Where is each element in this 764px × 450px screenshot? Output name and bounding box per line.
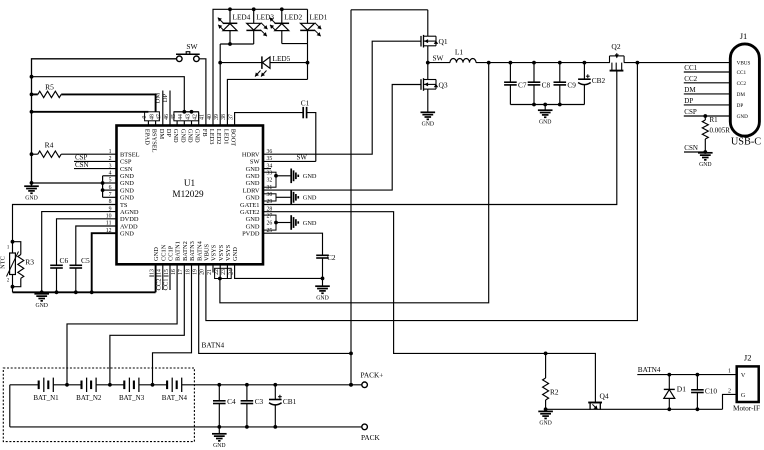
svg-text:CC1P: CC1P [168,245,175,261]
svg-text:VBUS: VBUS [737,61,751,67]
svg-text:BATN4: BATN4 [638,365,661,374]
svg-text:Q4: Q4 [600,392,609,401]
svg-text:BAT_N3: BAT_N3 [119,394,145,402]
svg-text:GND: GND [246,166,260,173]
svg-text:2: 2 [728,389,731,395]
svg-text:V: V [741,372,746,379]
svg-text:40: 40 [207,114,213,120]
svg-text:PACK: PACK [361,433,381,442]
svg-text:VBUS: VBUS [203,244,210,261]
svg-text:C3: C3 [255,397,264,406]
svg-text:LED4: LED4 [233,13,251,22]
svg-text:CSP: CSP [120,159,132,166]
svg-text:DM: DM [158,129,165,140]
svg-text:GND: GND [246,195,260,202]
svg-text:GND: GND [179,129,186,143]
svg-text:C4: C4 [227,397,236,406]
svg-text:BSYSEL: BSYSEL [151,129,158,153]
svg-text:Q2: Q2 [611,42,620,51]
svg-text:GATE2: GATE2 [240,209,260,216]
svg-text:BATN4: BATN4 [202,341,225,350]
svg-text:21: 21 [207,269,213,275]
svg-text:GND: GND [303,220,317,227]
svg-text:GND: GND [120,195,134,202]
svg-text:PACK+: PACK+ [361,371,384,380]
svg-text:Q1: Q1 [439,37,448,46]
svg-text:C10: C10 [705,387,718,396]
svg-text:BTSEL: BTSEL [120,152,140,159]
svg-text:C5: C5 [81,256,90,265]
svg-text:GND: GND [120,180,134,187]
svg-text:CSN: CSN [120,166,133,173]
svg-text:26: 26 [267,221,273,227]
svg-text:R5: R5 [45,83,54,92]
svg-text:G: G [741,392,746,399]
svg-text:DP: DP [162,93,169,102]
svg-text:GND: GND [539,421,551,427]
svg-text:43: 43 [185,114,191,120]
svg-text:13: 13 [149,269,155,275]
svg-text:GND: GND [539,119,551,125]
svg-text:C8: C8 [542,81,551,90]
svg-text:GND: GND [316,295,328,301]
svg-text:SW: SW [297,154,308,162]
svg-text:VSYS: VSYS [218,244,225,261]
svg-text:LED2: LED2 [215,129,222,145]
svg-text:LED1: LED1 [222,129,229,145]
svg-text:23: 23 [221,269,227,275]
svg-text:CC1: CC1 [737,70,747,76]
svg-text:CC2: CC2 [684,75,697,83]
svg-text:GND: GND [213,443,225,449]
svg-text:GND: GND [172,129,179,143]
svg-text:DVDD: DVDD [120,216,139,223]
svg-text:CC1: CC1 [684,64,697,72]
svg-text:Motor-IF: Motor-IF [733,403,760,412]
svg-text:AVDD: AVDD [120,223,138,230]
svg-text:GND: GND [422,122,434,128]
svg-text:BAT_N2: BAT_N2 [76,394,102,402]
svg-text:BOOT: BOOT [230,129,237,146]
svg-text:R4: R4 [45,141,54,150]
svg-text:BATN1: BATN1 [175,241,182,261]
svg-text:42: 42 [192,114,198,120]
svg-text:1: 1 [728,369,731,375]
svg-text:GND: GND [232,247,239,261]
svg-text:CC1: CC1 [163,278,170,290]
svg-text:GND: GND [303,173,317,180]
svg-text:30: 30 [267,192,273,198]
svg-text:37: 37 [228,114,234,120]
svg-text:SW: SW [250,159,261,166]
svg-text:U1: U1 [184,178,196,188]
svg-text:AGND: AGND [120,209,139,216]
svg-text:DP: DP [684,97,693,105]
svg-text:C1: C1 [301,99,310,108]
svg-text:GND: GND [246,180,260,187]
svg-text:CSN: CSN [684,144,698,152]
svg-text:32: 32 [267,178,273,184]
svg-text:LED1: LED1 [310,13,328,22]
svg-text:17: 17 [178,269,184,275]
svg-text:M12029: M12029 [172,189,204,199]
svg-text:GND: GND [246,173,260,180]
svg-text:R2: R2 [550,388,559,397]
svg-text:BATN4: BATN4 [196,240,203,261]
svg-text:USB-C: USB-C [731,137,761,148]
svg-text:LED3: LED3 [256,13,274,22]
svg-text:GND: GND [35,303,47,309]
svg-text:GND: GND [120,187,134,194]
svg-text:C2: C2 [327,253,336,262]
svg-text:0.005R: 0.005R [710,127,731,135]
svg-text:L1: L1 [455,48,464,57]
svg-text:41: 41 [200,114,206,120]
svg-text:BAT_N4: BAT_N4 [162,394,188,402]
svg-text:GND: GND [120,173,134,180]
svg-text:0: 0 [142,115,148,118]
svg-text:19: 19 [192,269,198,275]
svg-text:LDRV: LDRV [243,187,260,194]
svg-text:44: 44 [178,114,184,120]
svg-text:38: 38 [221,114,227,120]
svg-text:C9: C9 [567,81,576,90]
svg-text:48: 48 [149,114,155,120]
svg-text:CC1N: CC1N [160,244,167,261]
svg-text:46: 46 [164,114,170,120]
svg-text:PVDD: PVDD [242,230,260,237]
svg-text:HDRV: HDRV [242,152,260,159]
svg-text:R3: R3 [25,258,34,267]
svg-text:DM: DM [684,86,696,94]
svg-text:VSYS: VSYS [211,244,218,261]
svg-text:LED2: LED2 [284,13,302,22]
svg-text:DM: DM [737,92,746,98]
svg-text:33: 33 [267,170,273,176]
svg-text:LED3: LED3 [208,129,215,145]
svg-text:GND: GND [120,230,134,237]
svg-text:DP: DP [737,103,744,109]
svg-text:J1: J1 [740,31,748,41]
svg-text:J2: J2 [744,353,752,363]
svg-text:SW: SW [186,42,198,51]
svg-text:20: 20 [200,269,206,275]
svg-text:DP: DP [165,129,172,138]
svg-text:TS: TS [120,202,128,209]
svg-text:CSN: CSN [75,161,89,169]
svg-text:16: 16 [171,269,177,275]
svg-text:LED5: LED5 [273,54,291,63]
svg-text:DM: DM [155,93,162,104]
svg-text:CB1: CB1 [283,397,297,406]
svg-text:27: 27 [267,214,273,220]
svg-text:C6: C6 [60,256,69,265]
svg-text:GND: GND [699,162,711,168]
svg-text:D1: D1 [677,385,686,394]
svg-text:GND: GND [194,129,201,143]
svg-text:FB: FB [201,129,208,137]
svg-text:CSP: CSP [684,108,697,116]
svg-text:GND: GND [737,114,748,120]
svg-text:GATE1: GATE1 [240,202,260,209]
svg-text:15: 15 [164,269,170,275]
svg-text:GND: GND [25,195,37,201]
svg-text:R1: R1 [710,116,719,124]
svg-text:CC2: CC2 [155,278,162,290]
svg-text:GND: GND [246,216,260,223]
svg-text:EPAD: EPAD [143,129,150,145]
svg-text:14: 14 [157,269,163,275]
svg-text:BATN3: BATN3 [189,241,196,261]
svg-text:GND: GND [246,223,260,230]
svg-text:Q3: Q3 [439,80,448,89]
svg-text:39: 39 [214,114,220,120]
svg-text:NTC: NTC [0,256,7,269]
svg-text:BAT_N1: BAT_N1 [33,394,59,402]
svg-text:VSYS: VSYS [225,244,232,261]
svg-text:SW: SW [433,53,444,62]
svg-text:CC2: CC2 [737,81,747,87]
svg-text:BATN2: BATN2 [182,241,189,261]
svg-text:C7: C7 [518,81,527,90]
svg-text:GND: GND [153,247,160,261]
svg-text:GND: GND [303,195,317,202]
svg-text:18: 18 [185,269,191,275]
svg-text:GND: GND [187,129,194,143]
svg-text:CB2: CB2 [592,76,606,85]
